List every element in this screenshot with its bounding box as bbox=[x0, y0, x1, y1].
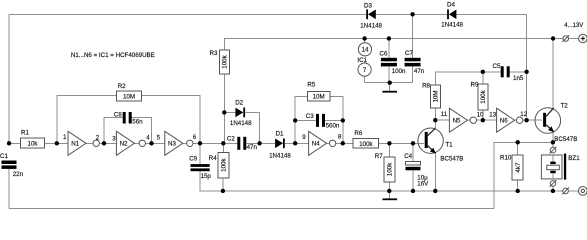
svg-text:N1...N6 = IC1 = HCF4069UBE: N1...N6 = IC1 = HCF4069UBE bbox=[71, 52, 155, 59]
diode D3 bbox=[360, 3, 382, 30]
capacitor C6 bbox=[380, 50, 407, 74]
wire R9 top lead bbox=[482, 72, 484, 84]
wire R5 right to N4 output riser bbox=[330, 96, 343, 143]
wire R7 top lead bbox=[388, 143, 390, 157]
svg-text:560n: 560n bbox=[326, 123, 340, 130]
wire C7 bottom lead bbox=[412, 66, 414, 82]
svg-text:C7: C7 bbox=[405, 50, 413, 57]
wire C5 right lead bbox=[510, 71, 527, 73]
svg-text:11: 11 bbox=[441, 111, 448, 118]
svg-text:10M: 10M bbox=[433, 90, 440, 102]
wire C9 bottom lead to ground rail bbox=[200, 171, 223, 191]
wire R10 bottom lead bbox=[517, 180, 519, 191]
svg-text:12: 12 bbox=[520, 111, 527, 118]
junction node D2 tap bbox=[222, 110, 226, 114]
svg-text:7: 7 bbox=[363, 67, 367, 74]
svg-text:4...13V: 4...13V bbox=[564, 23, 583, 29]
wire BZ1 bottom lead bbox=[552, 186, 554, 191]
diode D1 bbox=[269, 130, 291, 159]
wire R3 bottom lead bbox=[223, 74, 225, 112]
junction node on left edge at R1 bbox=[7, 141, 11, 145]
svg-text:C3: C3 bbox=[306, 113, 314, 120]
wire riser from bottom rail to R10/BZ1 row bbox=[494, 142, 553, 208]
capacitor C7 bbox=[405, 50, 425, 75]
svg-text:C1: C1 bbox=[0, 153, 8, 160]
junction node R3/R4 bbox=[221, 141, 225, 145]
connector symbol + supply bbox=[562, 35, 569, 42]
svg-text:100k: 100k bbox=[387, 162, 394, 176]
wire R9 bottom lead bbox=[482, 110, 484, 120]
svg-text:1: 1 bbox=[63, 134, 67, 141]
svg-text:6: 6 bbox=[193, 134, 197, 141]
inverter N4 bbox=[309, 131, 336, 155]
svg-text:100k: 100k bbox=[359, 141, 373, 148]
resistor R1 bbox=[21, 129, 45, 148]
junction node C5 right bbox=[524, 70, 528, 74]
svg-text:R3: R3 bbox=[210, 50, 218, 57]
svg-text:47n: 47n bbox=[414, 68, 425, 75]
terminal + bbox=[579, 34, 587, 43]
junction node C6 on VDD rail bbox=[387, 36, 391, 40]
wire top rail right segment and drop to N6 output bbox=[456, 14, 526, 117]
svg-text:BC547B: BC547B bbox=[440, 156, 463, 163]
wire N2 output to N3 input bbox=[134, 142, 164, 144]
connector symbol - supply bbox=[562, 188, 569, 195]
wire C7 top lead (to D3/D4 midpoint) bbox=[412, 14, 414, 58]
junction node 6 bbox=[198, 141, 202, 145]
capacitor C4 (electrolytic) bbox=[404, 153, 429, 187]
junction node C8 left bbox=[102, 141, 106, 145]
resistor R10 bbox=[500, 155, 523, 181]
wire T1 emitter to ground rail bbox=[434, 154, 436, 191]
wire top rail left segment bbox=[9, 13, 366, 15]
svg-text:2: 2 bbox=[96, 135, 100, 142]
wire left edge lower (C1 bottom to bottom rail) bbox=[8, 168, 10, 208]
svg-text:100n: 100n bbox=[392, 68, 406, 75]
ground symbol under C6 bbox=[389, 83, 391, 91]
junction node C4 ground bbox=[411, 189, 415, 193]
svg-text:D3: D3 bbox=[364, 3, 372, 10]
diode D2 bbox=[230, 100, 252, 127]
wire C8 left riser bbox=[104, 118, 123, 144]
svg-text:R2: R2 bbox=[118, 83, 126, 90]
wire D1 to N4 input bbox=[285, 142, 309, 144]
svg-text:N5: N5 bbox=[453, 118, 461, 125]
svg-text:100k: 100k bbox=[221, 157, 228, 171]
wire R3/R4 node riser through D2 tap bbox=[223, 112, 225, 143]
svg-text:10k: 10k bbox=[28, 141, 39, 148]
inverter N3 bbox=[165, 131, 193, 155]
wire C3 right lead bbox=[325, 119, 343, 121]
svg-text:N3: N3 bbox=[168, 141, 176, 148]
buzzer BZ1 bbox=[541, 154, 580, 180]
svg-text:BZ1: BZ1 bbox=[568, 155, 580, 162]
terminal - bbox=[578, 187, 587, 196]
svg-text:1N4148: 1N4148 bbox=[441, 21, 463, 28]
svg-text:5: 5 bbox=[157, 135, 161, 142]
svg-text:BC547B: BC547B bbox=[554, 136, 577, 143]
svg-text:N6: N6 bbox=[500, 118, 508, 125]
wire R10 top lead bbox=[517, 142, 519, 155]
svg-text:4: 4 bbox=[146, 135, 150, 142]
resistor R7 bbox=[375, 153, 395, 182]
wire R8 bottom lead bbox=[434, 108, 436, 120]
svg-text:D4: D4 bbox=[447, 2, 455, 9]
svg-text:1N4148: 1N4148 bbox=[269, 152, 291, 159]
junction node C9/R4 ground bbox=[221, 189, 225, 193]
wire N5 output to N6 input bbox=[467, 119, 496, 121]
wire R2 feedback left riser bbox=[57, 96, 117, 144]
wire input row: node to R1 bbox=[9, 142, 21, 144]
wire pin14 lead bbox=[364, 39, 366, 43]
wire R1 to N1 input bbox=[45, 142, 69, 144]
junction node R10 bottom bbox=[516, 189, 520, 193]
svg-text:C2: C2 bbox=[227, 136, 235, 143]
wire T1 collector riser bbox=[434, 120, 436, 128]
svg-text:16V: 16V bbox=[417, 181, 429, 188]
diode D4 bbox=[441, 2, 463, 29]
svg-text:R6: R6 bbox=[354, 130, 362, 137]
wire R4 top lead bbox=[222, 143, 224, 152]
junction node R9 bottom bbox=[481, 118, 485, 122]
capacitor C3 bbox=[306, 113, 340, 130]
capacitor C2 bbox=[227, 136, 258, 151]
resistor R9 bbox=[471, 81, 488, 110]
wire bottom rail bbox=[9, 208, 494, 210]
resistor R6 bbox=[353, 130, 379, 148]
svg-text:100k: 100k bbox=[222, 54, 229, 68]
junction node N6 output bbox=[524, 118, 528, 122]
connector symbol BZ1 top bbox=[550, 147, 557, 154]
svg-text:R9: R9 bbox=[471, 81, 479, 88]
svg-text:C8: C8 bbox=[114, 112, 122, 119]
wire D2 right lead down to C2/D1 node bbox=[246, 112, 260, 143]
inverter N2 bbox=[116, 131, 145, 155]
wire C3 left lead bbox=[295, 119, 316, 121]
svg-text:N2: N2 bbox=[120, 141, 128, 148]
wire ground rail (inner) bbox=[223, 190, 563, 192]
svg-text:9: 9 bbox=[302, 134, 306, 141]
svg-text:15p: 15p bbox=[201, 173, 212, 180]
junction node C3 left bbox=[293, 118, 297, 122]
wire connector to + terminal bbox=[569, 38, 579, 40]
wire N3 output to C2 bbox=[183, 142, 238, 144]
wire top rail mid segment bbox=[376, 13, 447, 15]
IC1 pin 7 supply circle bbox=[358, 63, 371, 76]
svg-text:1N4148: 1N4148 bbox=[230, 120, 252, 127]
svg-text:R1: R1 bbox=[21, 129, 29, 136]
junction node T1 emitter ground bbox=[433, 189, 437, 193]
wire C4 bottom lead bbox=[412, 170, 414, 191]
ground symbol under R7 bbox=[388, 191, 390, 199]
wire R4 bottom lead bbox=[222, 178, 224, 191]
wire node9 riser to R5/C3 bbox=[295, 96, 307, 143]
svg-text:10M: 10M bbox=[123, 93, 135, 100]
junction node 8 bbox=[341, 141, 345, 145]
junction node C3 right bbox=[341, 118, 345, 122]
wire BZ1 top lead bbox=[552, 142, 554, 147]
wire C6 top lead bbox=[388, 39, 390, 58]
svg-text:22n: 22n bbox=[13, 171, 24, 178]
svg-text:N4: N4 bbox=[312, 141, 320, 148]
resistor R5 bbox=[307, 82, 330, 101]
junction node D3/D4 midpoint bbox=[410, 12, 414, 16]
capacitor C1 bbox=[0, 153, 24, 178]
wire T2 emitter down to BZ1 row bbox=[552, 132, 554, 142]
svg-text:4k7: 4k7 bbox=[515, 162, 522, 173]
junction node R8/R9 row left bbox=[481, 70, 485, 74]
wire C6 bottom lead bbox=[388, 66, 390, 82]
svg-text:N1: N1 bbox=[71, 141, 79, 148]
junction node R10 top bbox=[516, 140, 520, 144]
svg-text:R4: R4 bbox=[209, 155, 217, 162]
capacitor C8 bbox=[114, 112, 143, 126]
junction node D2/C2/D1 bbox=[257, 141, 261, 145]
junction node BZ1 bottom bbox=[551, 189, 555, 193]
svg-text:47n: 47n bbox=[247, 144, 258, 151]
capacitor C5 bbox=[493, 63, 524, 82]
wire D2 left lead bbox=[224, 111, 235, 113]
wire N4 output to R6 bbox=[327, 142, 354, 144]
IC1 pin 14 supply circle bbox=[358, 43, 371, 56]
svg-text:C6: C6 bbox=[380, 50, 388, 57]
junction node T1 collector / R8 bbox=[433, 118, 437, 122]
junction node 9 bbox=[293, 141, 297, 145]
junction node ground under C6 bbox=[388, 81, 392, 85]
svg-text:R5: R5 bbox=[307, 82, 315, 89]
wire VDD rail (R3 top to + terminal) bbox=[224, 39, 563, 51]
junction node T2 collector on VDD rail bbox=[551, 36, 555, 40]
svg-text:10M: 10M bbox=[313, 94, 325, 101]
wire N1 output to N2 input bbox=[86, 142, 116, 144]
wire left edge upper (top rail to R1 node) bbox=[8, 14, 10, 143]
wire connector to - terminal bbox=[568, 190, 578, 192]
junction node R6/R7 bbox=[387, 141, 391, 145]
svg-text:1n5: 1n5 bbox=[513, 75, 524, 82]
resistor R3 bbox=[210, 50, 230, 74]
wire R8 top lead and row to C5 bbox=[435, 72, 500, 85]
wire C2 to D1 bbox=[246, 142, 275, 144]
svg-text:T1: T1 bbox=[445, 141, 453, 148]
inverter N5 bbox=[449, 108, 476, 132]
connector symbol BZ1 bottom bbox=[550, 180, 557, 187]
svg-text:56n: 56n bbox=[132, 119, 143, 126]
svg-text:D1: D1 bbox=[276, 130, 284, 137]
svg-text:R8: R8 bbox=[422, 83, 430, 90]
transistor T1 bbox=[418, 128, 464, 163]
svg-text:R7: R7 bbox=[375, 153, 383, 160]
wire C8 right riser bbox=[132, 118, 152, 144]
svg-text:14: 14 bbox=[362, 47, 369, 54]
svg-text:C5: C5 bbox=[493, 63, 501, 70]
wire C4 top lead bbox=[412, 143, 414, 161]
wire T1 collector node to N5 input bbox=[435, 119, 449, 121]
svg-text:1N4148: 1N4148 bbox=[360, 22, 382, 29]
transistor T2 bbox=[535, 103, 577, 143]
wire pin7 lead to ground node bbox=[365, 76, 413, 83]
wire R6 to T1 base bbox=[379, 142, 424, 144]
inverter N6 bbox=[497, 108, 523, 132]
inverter N1 bbox=[68, 131, 99, 155]
capacitor C9 bbox=[189, 156, 211, 180]
svg-text:C4: C4 bbox=[404, 153, 412, 160]
resistor R4 bbox=[209, 152, 229, 178]
wire T2 collector riser to VDD rail bbox=[552, 39, 554, 109]
wire R2 feedback right riser bbox=[142, 96, 201, 144]
junction node C4 top bbox=[411, 141, 415, 145]
junction node R7 ground bbox=[387, 189, 391, 193]
wire R7 bottom lead bbox=[388, 182, 390, 191]
resistor R2 bbox=[117, 83, 142, 101]
svg-text:R10: R10 bbox=[500, 155, 512, 162]
svg-text:100k: 100k bbox=[480, 89, 487, 103]
resistor R8 bbox=[422, 83, 440, 109]
svg-text:13: 13 bbox=[489, 112, 496, 119]
svg-text:8: 8 bbox=[338, 134, 342, 141]
junction node T2 emitter / BZ1 top bbox=[551, 140, 555, 144]
svg-text:T2: T2 bbox=[561, 103, 569, 110]
wire N6 output to T2 base bbox=[515, 119, 543, 121]
svg-text:C9: C9 bbox=[189, 156, 197, 163]
junction node C8 right / pin4 bbox=[149, 141, 153, 145]
junction node R2 left riser bbox=[55, 141, 59, 145]
svg-text:10: 10 bbox=[477, 112, 484, 119]
junction node pin14 on VDD rail bbox=[362, 36, 366, 40]
svg-text:D2: D2 bbox=[235, 100, 243, 107]
svg-text:3: 3 bbox=[112, 135, 116, 142]
wire C9 top lead bbox=[199, 143, 201, 164]
